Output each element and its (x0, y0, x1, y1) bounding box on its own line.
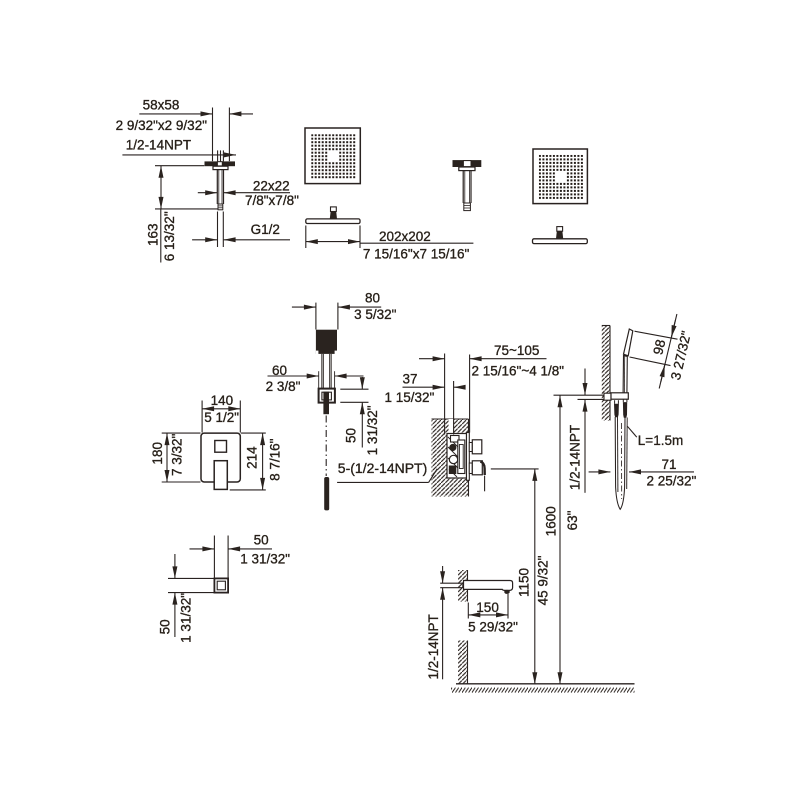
svg-text:75~105: 75~105 (494, 343, 539, 358)
svg-text:2 9/32"x2 9/32": 2 9/32"x2 9/32" (116, 118, 208, 133)
svg-text:1 15/32": 1 15/32" (385, 390, 435, 405)
svg-text:71: 71 (662, 457, 677, 472)
svg-text:1150: 1150 (517, 568, 532, 597)
svg-text:2 3/8": 2 3/8" (266, 379, 301, 394)
svg-text:7/8"x7/8": 7/8"x7/8" (245, 193, 299, 208)
svg-text:58x58: 58x58 (143, 97, 180, 112)
svg-text:7 15/16"x7 15/16": 7 15/16"x7 15/16" (363, 247, 470, 262)
svg-text:2 15/16"~4 1/8": 2 15/16"~4 1/8" (472, 363, 565, 378)
svg-text:5-(1/2-14NPT): 5-(1/2-14NPT) (338, 460, 427, 476)
svg-text:1 31/32": 1 31/32" (179, 593, 194, 643)
svg-text:1 31/32": 1 31/32" (365, 405, 380, 455)
svg-text:22x22: 22x22 (253, 178, 290, 193)
svg-text:6 13/32": 6 13/32" (162, 211, 177, 261)
svg-text:L=1.5m: L=1.5m (638, 433, 683, 448)
svg-text:98: 98 (650, 338, 668, 356)
svg-text:1600: 1600 (544, 506, 559, 536)
svg-text:3 5/32": 3 5/32" (354, 307, 397, 322)
svg-text:8 7/16": 8 7/16" (267, 438, 282, 481)
svg-text:50: 50 (157, 619, 172, 634)
svg-text:G1/2: G1/2 (251, 222, 280, 237)
svg-text:5 1/2": 5 1/2" (204, 410, 239, 425)
svg-text:1 31/32": 1 31/32" (240, 551, 290, 566)
svg-text:214: 214 (245, 446, 260, 469)
svg-text:1/2-14NPT: 1/2-14NPT (426, 614, 441, 679)
svg-text:1/2-14NPT: 1/2-14NPT (567, 425, 582, 490)
svg-text:50: 50 (254, 532, 269, 547)
svg-text:163: 163 (145, 223, 160, 246)
svg-text:202x202: 202x202 (379, 229, 431, 244)
svg-text:37: 37 (403, 372, 418, 387)
svg-text:140: 140 (211, 393, 234, 408)
svg-text:45 9/32": 45 9/32" (536, 555, 551, 605)
svg-text:1/2-14NPT: 1/2-14NPT (126, 138, 191, 153)
svg-text:80: 80 (365, 291, 380, 306)
svg-text:150: 150 (476, 600, 499, 615)
svg-text:60: 60 (272, 363, 287, 378)
svg-text:2 25/32": 2 25/32" (647, 474, 697, 489)
svg-text:63": 63" (565, 510, 580, 530)
svg-text:7 3/32": 7 3/32" (170, 434, 185, 477)
svg-text:50: 50 (344, 428, 359, 443)
svg-text:180: 180 (150, 442, 165, 465)
svg-text:5 29/32": 5 29/32" (468, 620, 518, 635)
